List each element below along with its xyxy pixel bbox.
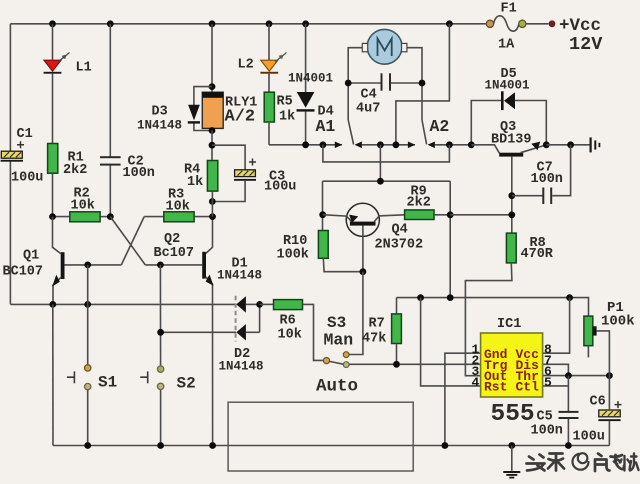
- LED L1: [44, 53, 92, 76]
- node relay top / D3 branch: [209, 83, 216, 90]
- wire relay column from rail: [211, 24, 213, 92]
- svg-text:2N3702: 2N3702: [375, 238, 424, 253]
- wire Rst branch to pin4: [421, 298, 481, 386]
- ground right (sideways): [591, 137, 600, 152]
- svg-text:100n: 100n: [531, 424, 563, 439]
- wire C5 column: [567, 376, 569, 412]
- wire pin7 Dis tie to pin6: [543, 364, 569, 375]
- svg-text:12V: 12V: [569, 34, 603, 55]
- fuse F1: [486, 2, 526, 53]
- node R8 top junction: [508, 211, 515, 218]
- wire flip-flop crossover: [110, 217, 202, 265]
- node C7 right branch junction: [567, 141, 574, 148]
- svg-text:F1: F1: [501, 2, 517, 17]
- svg-text:BC107: BC107: [3, 265, 44, 280]
- node A1 right contact junction: [377, 141, 384, 148]
- node A2 right contact junction: [446, 141, 453, 148]
- svg-text:1A: 1A: [498, 38, 515, 53]
- svg-text:555: 555: [491, 401, 535, 428]
- node rail junctions: [84, 442, 91, 449]
- svg-text:A1: A1: [316, 117, 336, 136]
- svg-text:100k: 100k: [277, 248, 309, 263]
- node +Vcc terminal (dark red): [549, 20, 556, 27]
- potentiometer P1: [584, 300, 635, 376]
- capacitor C4: [348, 73, 422, 116]
- wire R8 bottom to pin3 Out: [465, 263, 512, 376]
- wire rail feed to A2 left contact: [396, 24, 450, 145]
- node Rst branch junction: [417, 294, 424, 301]
- svg-text:1N4148: 1N4148: [217, 269, 262, 283]
- switch S3 Man/Auto: [316, 272, 363, 397]
- transistor Q3 BD139: [471, 120, 546, 233]
- resistor R4: [184, 161, 218, 217]
- relay RLY1 A/2: [202, 92, 257, 128]
- wire Q4 supply row: [323, 180, 451, 182]
- resistor R10: [277, 231, 363, 272]
- transistor Q4 2N3702: [323, 203, 423, 272]
- wire A1 right contact down to Q4 rail: [379, 145, 381, 181]
- node Q4 row center junction: [377, 178, 384, 185]
- svg-text:S2: S2: [177, 375, 196, 393]
- svg-text:1N4148: 1N4148: [219, 360, 264, 374]
- svg-text:C6: C6: [590, 395, 606, 410]
- node D2 line / S2 column junction: [157, 329, 164, 336]
- diode D5 1N4001: [471, 67, 546, 145]
- wire pin5 Ctl to C5 column: [543, 385, 569, 387]
- svg-text:1k: 1k: [187, 175, 203, 190]
- switch A2 contact arrows: [362, 117, 471, 148]
- node top rail junctions: [49, 20, 56, 27]
- node R4 bottom junction: [209, 198, 216, 205]
- node Thr / wiper / C6 junction: [606, 372, 613, 379]
- transistor Q2 Bc107: [154, 217, 214, 446]
- svg-text:100u: 100u: [264, 180, 296, 195]
- svg-text:4: 4: [472, 375, 480, 390]
- svg-text:100u: 100u: [573, 430, 605, 445]
- node S1 column / D1 line junction: [84, 301, 91, 308]
- wire fuse to +Vcc terminal: [526, 23, 549, 25]
- node Dis/Thr junction: [565, 372, 572, 379]
- svg-text:C4: C4: [361, 88, 377, 103]
- wire relay to R4: [211, 131, 213, 161]
- svg-text:470R: 470R: [521, 247, 554, 262]
- capacitor C6: [573, 376, 622, 446]
- wire R1 column: [52, 24, 54, 60]
- node R1/R2/Q1 junction: [49, 213, 56, 220]
- svg-text:S3: S3: [327, 314, 346, 332]
- svg-text:A2: A2: [430, 117, 450, 136]
- svg-text:S1: S1: [98, 374, 117, 392]
- node A2 left contact junction: [393, 141, 400, 148]
- wire C3 top branch: [212, 145, 245, 170]
- svg-text:Q4: Q4: [392, 223, 408, 238]
- svg-text:Q2: Q2: [164, 232, 180, 247]
- op-amp IC1 555 box: [472, 317, 553, 428]
- resistor R5: [264, 74, 295, 145]
- wire R5/D4 row to A1 contact: [269, 144, 342, 146]
- svg-text:C5: C5: [537, 410, 553, 425]
- resistor R1: [48, 144, 58, 174]
- wire top supply rail: [10, 23, 486, 25]
- node C1/Q1 emitter junction: [49, 301, 56, 308]
- node Q4 emitter junction: [319, 211, 326, 218]
- node relay bottom junction: [209, 127, 216, 134]
- wire A1-A2 bypass U loop: [323, 145, 450, 162]
- wire main V+ line: [397, 298, 589, 317]
- wire C1 column: [9, 24, 11, 151]
- node R4 top / C3 branch: [209, 142, 216, 149]
- node Q3 collector / C7 junction: [508, 192, 515, 199]
- net +Vcc 12V label: [559, 16, 603, 55]
- node D4 bottom junction: [302, 141, 309, 148]
- svg-text:BD139: BD139: [491, 133, 532, 148]
- svg-text:5: 5: [544, 375, 552, 390]
- node Vcc branch junction: [566, 294, 573, 301]
- diode D1 1N4148: [217, 257, 262, 342]
- svg-text:Bc107: Bc107: [154, 246, 195, 261]
- svg-text:1N4001: 1N4001: [485, 79, 530, 93]
- node C4 left junction: [345, 80, 352, 87]
- svg-text:2k2: 2k2: [63, 163, 87, 178]
- svg-text:Rst: Rst: [484, 379, 507, 394]
- svg-text:+Vcc: +Vcc: [559, 16, 601, 36]
- wire pin1 Gnd to rail: [445, 353, 481, 445]
- wire S2 column: [159, 265, 161, 366]
- wire bottom ground rail: [53, 445, 609, 447]
- wire D1 steering line: [10, 303, 235, 305]
- push button S1: [67, 365, 117, 392]
- svg-text:IC1: IC1: [497, 317, 521, 332]
- svg-text:10k: 10k: [278, 328, 302, 343]
- node R3/Q2 collector junction: [209, 213, 216, 220]
- svg-text:100n: 100n: [531, 172, 563, 187]
- svg-text:Man: Man: [324, 331, 354, 350]
- node Q3 emitter / D5 junction: [543, 141, 550, 148]
- svg-text:4u7: 4u7: [356, 102, 380, 117]
- svg-text:C1: C1: [17, 127, 33, 142]
- node R2/C2 junction: [107, 213, 114, 220]
- wire emitter to ground: [546, 144, 590, 146]
- switch A1 contact arrows: [316, 117, 362, 148]
- node Q4 base / S3 Man junction: [360, 268, 367, 275]
- diode D2 1N4148: [161, 304, 264, 373]
- diode D4 1N4001: [288, 24, 334, 145]
- wire Trg line from S3 Auto to pin2: [349, 363, 480, 365]
- svg-text:100n: 100n: [123, 166, 155, 181]
- resistor R8: [506, 233, 553, 263]
- svg-text:Ctl: Ctl: [516, 379, 540, 394]
- svg-text:10k: 10k: [71, 199, 95, 214]
- resistor R9: [405, 185, 451, 220]
- svg-text:100u: 100u: [11, 171, 43, 186]
- svg-text:R7: R7: [369, 317, 385, 332]
- node Q1 base / S1 junction: [84, 262, 91, 269]
- node D1/D2/R6 junction: [256, 301, 263, 308]
- node A1 left contact junction: [320, 141, 327, 148]
- node R9 right junction: [447, 211, 454, 218]
- wire R6 to S3 common: [303, 304, 324, 360]
- svg-text:1N4001: 1N4001: [288, 72, 333, 86]
- capacitor C7: [512, 145, 571, 204]
- node R7 bottom / Trg junction: [393, 361, 400, 368]
- wire Vcc branch to pin8: [543, 298, 570, 354]
- wire motor left column: [348, 48, 362, 120]
- wire C2 column: [109, 24, 111, 157]
- resistor R7: [362, 298, 401, 365]
- capacitor C2: [100, 155, 155, 182]
- transistor Q1 BC107: [3, 217, 122, 305]
- capacitor C5: [531, 410, 579, 446]
- resistor R6: [260, 300, 303, 343]
- wire pin6 Thr line: [543, 375, 610, 377]
- svg-text:1k: 1k: [279, 110, 295, 125]
- ground bottom: [503, 446, 520, 478]
- wire Q1 emitter ground column: [52, 304, 54, 445]
- capacitor C1: [1, 127, 44, 186]
- svg-text:47k: 47k: [362, 332, 386, 347]
- node C4 right junction: [419, 80, 426, 87]
- wire R10/Q4 emitter column: [322, 181, 324, 230]
- node S2 column top junction: [157, 262, 164, 269]
- resistor R2: [53, 216, 70, 218]
- svg-text:Auto: Auto: [316, 377, 358, 397]
- svg-text:D3: D3: [152, 105, 168, 120]
- watermark 头条@卢飞快: [527, 453, 639, 471]
- push button S2: [140, 366, 196, 393]
- node R9 column / V+ junction: [447, 294, 454, 301]
- resistor R3: [164, 212, 194, 222]
- diode D3 1N4148: [137, 87, 212, 133]
- wire C3 bottom return: [212, 181, 245, 202]
- motor M: [362, 29, 407, 64]
- svg-text:100k: 100k: [601, 314, 635, 330]
- capacitor C3: [234, 159, 296, 195]
- svg-text:R5: R5: [277, 95, 293, 110]
- wire R9 right column: [449, 181, 451, 297]
- svg-text:Q1: Q1: [23, 249, 39, 264]
- svg-text:A/2: A/2: [225, 108, 256, 127]
- svg-text:10k: 10k: [166, 200, 190, 215]
- node Q3 base junction: [468, 141, 475, 148]
- svg-text:L1: L1: [76, 61, 92, 76]
- svg-text:2k2: 2k2: [407, 196, 431, 211]
- svg-text:L2: L2: [238, 58, 254, 73]
- wire S1 column: [87, 265, 89, 365]
- empty label rectangle: [228, 402, 413, 471]
- wire motor right column: [407, 48, 422, 120]
- svg-text:1N4148: 1N4148: [137, 119, 182, 133]
- LED L2: [238, 24, 287, 74]
- wire R9 row to Q3 collector: [450, 214, 512, 216]
- svg-text:R6: R6: [280, 314, 296, 329]
